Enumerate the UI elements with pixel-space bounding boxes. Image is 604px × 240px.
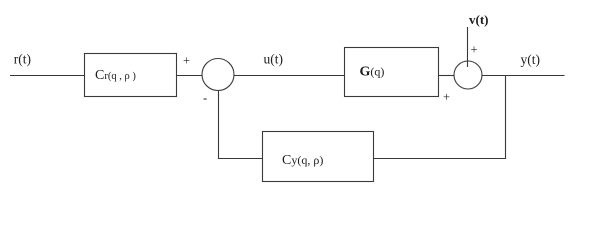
wire: plant output to summing junction 2	[439, 75, 455, 77]
svg-text:G(q): G(q)	[360, 65, 385, 80]
svg-text:+: +	[183, 54, 190, 68]
wire: Cr output to summing junction 1	[177, 75, 203, 77]
wire: feedback path into Cy block	[218, 158, 263, 160]
svg-text:-: -	[203, 91, 207, 105]
wire: output y(t)	[482, 75, 565, 77]
wire: v(t) noise into summing junction 2	[467, 27, 469, 67]
wire: output tap down to feedback path	[505, 75, 507, 159]
wire: input r(t) into controller block	[10, 75, 85, 77]
block G(q) plant	[345, 48, 439, 97]
svg-text:+: +	[443, 90, 450, 104]
summing junction 2 (noise addition)	[454, 61, 482, 89]
block Cr(q,p) feedforward controller	[85, 54, 177, 97]
svg-text:+: +	[471, 42, 478, 56]
svg-text:u(t): u(t)	[264, 52, 284, 67]
summing junction 1	[202, 59, 234, 91]
svg-text:v(t): v(t)	[469, 12, 489, 27]
svg-text:y(t): y(t)	[521, 52, 541, 67]
wire: summing junction 1 down to feedback path	[218, 91, 220, 159]
wire: feedback from output tap into Cy block	[373, 158, 506, 160]
wire: u(t) from summing junction 1 to plant G	[234, 75, 345, 77]
svg-text:Cr(q , ρ ): Cr(q , ρ )	[95, 68, 136, 83]
block Cy(q,p) feedback controller	[263, 132, 374, 182]
svg-text:Cy(q, ρ): Cy(q, ρ)	[282, 153, 323, 168]
svg-text:r(t): r(t)	[14, 52, 31, 67]
